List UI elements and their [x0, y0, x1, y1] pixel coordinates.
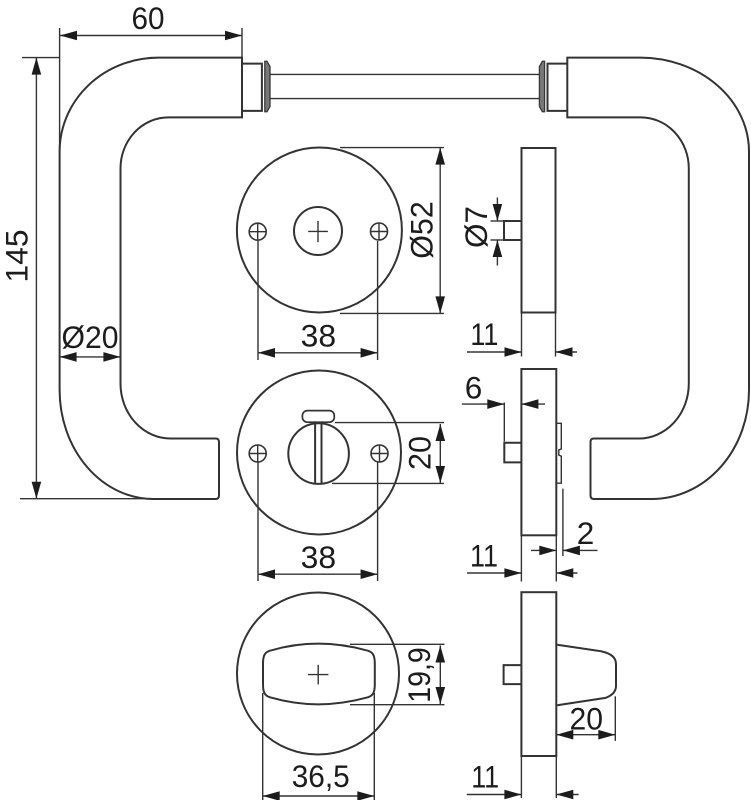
svg-text:38: 38 [301, 318, 337, 354]
dim diam52 [340, 147, 444, 149]
svg-text:36,5: 36,5 [292, 758, 350, 794]
rosette 2 turn bar [314, 421, 316, 483]
left collar ring [265, 61, 270, 111]
rosette 2 turn knob [288, 423, 349, 484]
rosette 1 hub circle [294, 207, 342, 255]
dim 11 view3 [520, 756, 522, 798]
side view 3 pin [504, 665, 522, 684]
rosette 3 oval turn [263, 644, 375, 705]
dim 38 lower [257, 463, 259, 582]
svg-text:Ø52: Ø52 [403, 201, 439, 259]
rosette 1 hub cross [308, 230, 328, 232]
side view 1 pin [504, 221, 522, 240]
rosette 2 left screw [249, 445, 266, 462]
dim 38 upper [257, 241, 259, 360]
svg-text:60: 60 [132, 0, 165, 36]
svg-text:11: 11 [470, 538, 498, 574]
side view 2 pin [504, 443, 521, 463]
rosette 1 left screw [249, 223, 266, 240]
right lever handle [567, 58, 749, 499]
left lever handle [60, 58, 242, 499]
svg-text:38: 38 [301, 539, 337, 575]
side view 2 plate [521, 369, 556, 535]
svg-text:Ø20: Ø20 [62, 319, 119, 355]
side view 2 latch strip [556, 423, 561, 483]
dim diam7 [491, 220, 505, 222]
dim 145 [22, 57, 59, 59]
dim 60 [59, 28, 61, 152]
rosette 3 cross [308, 674, 329, 676]
svg-text:6: 6 [465, 370, 483, 406]
dim 6 [503, 403, 505, 442]
dim 2 [562, 489, 564, 556]
svg-text:20: 20 [570, 701, 604, 737]
spindle [270, 73, 540, 75]
dim 11 view1 [521, 313, 523, 357]
svg-text:11: 11 [471, 759, 499, 795]
right collar ring [539, 61, 544, 111]
rosette 2 right screw [371, 445, 388, 462]
dim diam20 [60, 356, 121, 358]
dim 20 view3 [614, 696, 616, 741]
svg-text:Ø7: Ø7 [458, 206, 494, 248]
dim 36,5 [262, 693, 264, 800]
svg-text:11: 11 [470, 316, 498, 352]
right collar [548, 64, 568, 111]
svg-text:2: 2 [577, 515, 595, 551]
side view 3 knob cone [557, 645, 616, 706]
rosette 2 circle [237, 371, 401, 535]
rosette 3 circle [237, 593, 399, 755]
side view 3 plate [521, 592, 556, 756]
rosette 2 tab [302, 411, 334, 423]
dim 19,9 [350, 643, 445, 645]
svg-text:145: 145 [0, 230, 35, 283]
side view 1 plate [522, 148, 556, 313]
dim 20 rosette2 [335, 422, 444, 424]
rosette 1 right screw [371, 223, 388, 240]
svg-text:19,9: 19,9 [401, 647, 437, 703]
left collar [242, 64, 262, 111]
rosette 1 circle [237, 148, 402, 313]
dim 11 view2 [520, 535, 522, 581]
svg-text:20: 20 [402, 436, 438, 470]
